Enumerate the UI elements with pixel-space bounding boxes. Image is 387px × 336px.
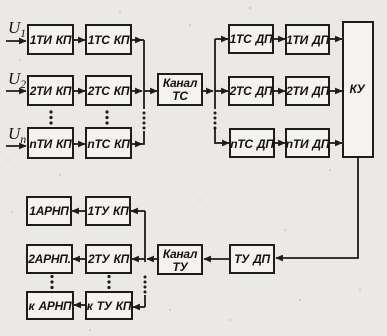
wire 2TI DP to KU: [329, 90, 342, 92]
wire 2TS KP to bus TS-KP junction: [131, 90, 142, 92]
block nTI DP: [286, 129, 330, 157]
block k ARNP: [27, 292, 73, 319]
block k TU KP: [86, 292, 132, 319]
wire 1TI KP to 1TS KP: [73, 39, 85, 41]
wire 1TI DP to KU: [329, 38, 342, 40]
ellipsis dots column TU KP: [107, 275, 110, 289]
block 2TU KP: [86, 245, 131, 273]
wire nTI KP to nTS KP: [73, 143, 85, 145]
svg-text:nТС ДП: nТС ДП: [230, 137, 274, 151]
svg-text:2ТС ДП: 2ТС ДП: [229, 84, 273, 98]
bus TU-KP vertical wire: [144, 211, 146, 262]
bus TU-KP bottom elbow wire: [144, 295, 146, 307]
block nTS DP: [230, 129, 274, 157]
block KU: [343, 22, 373, 157]
block TU DP: [230, 245, 274, 273]
ellipsis dots column ARNP: [50, 275, 53, 289]
block Kanal TS: [158, 74, 202, 105]
svg-text:ТУ ДП: ТУ ДП: [234, 252, 270, 266]
bus TS-KP dotted segment: [143, 112, 146, 130]
svg-text:2АРНП.: 2АРНП.: [27, 252, 70, 266]
svg-text:КУ: КУ: [349, 82, 365, 96]
wire U2 input arrow: [6, 90, 26, 92]
wire bus to nTS DP: [215, 142, 229, 144]
block 2TI KP: [28, 76, 73, 105]
svg-text:nТИ КП: nТИ КП: [29, 137, 72, 151]
svg-text:Канал: Канал: [163, 76, 198, 90]
svg-text:к ТУ КП: к ТУ КП: [87, 299, 132, 313]
wire bus to 2TU KP: [132, 258, 145, 260]
svg-text:Канал: Канал: [163, 247, 198, 261]
wire nTS DP to nTI DP: [274, 142, 285, 144]
svg-text:nТИ ДП: nТИ ДП: [286, 137, 330, 151]
wire bus to 1TU KP: [131, 210, 145, 212]
ellipsis dots column TI KP: [49, 110, 52, 124]
ellipsis dots column TS KP: [105, 110, 108, 124]
svg-text:2ТИ КП: 2ТИ КП: [29, 84, 72, 98]
block 2TS DP: [229, 77, 273, 105]
bus TS-KP vertical wire: [143, 40, 145, 109]
svg-text:1ТС ДП: 1ТС ДП: [230, 32, 273, 46]
svg-text:1ТУ КП: 1ТУ КП: [88, 204, 130, 218]
svg-text:1АРНП: 1АРНП: [29, 204, 69, 218]
svg-text:2ТУ КП: 2ТУ КП: [87, 252, 130, 266]
bus TS-DP bottom elbow wire: [215, 128, 216, 143]
block Kanal TU: [158, 245, 202, 274]
wire nTS KP to bus TS-KP bottom elbow: [131, 131, 144, 144]
svg-text:2ТС КП: 2ТС КП: [87, 84, 130, 98]
block 1TS DP: [229, 25, 273, 53]
block 2TI DP: [285, 77, 329, 105]
block nTI KP: [28, 128, 73, 158]
wire Kanal TU to bus TU-KP junction: [147, 258, 158, 260]
wire 1TS DP to 1TI DP: [273, 38, 285, 40]
wire nTI DP to KU: [329, 142, 342, 144]
wire k TU KP to k ARNP: [74, 304, 86, 306]
svg-text:nТС КП: nТС КП: [87, 137, 130, 151]
wire 2TU KP to 2ARNP: [73, 258, 86, 260]
wire bus to k TU KP: [133, 306, 145, 308]
wire 1TU KP to 1ARNP: [72, 210, 86, 212]
svg-text:2ТИ ДП: 2ТИ ДП: [285, 84, 329, 98]
node U1 input label: [8, 18, 26, 40]
node U2 input label: [8, 69, 26, 91]
wire TU DP to Kanal TU: [204, 258, 230, 260]
bus TS-DP vertical wire: [214, 39, 216, 109]
svg-text:1ТС КП: 1ТС КП: [88, 33, 130, 47]
svg-text:1ТИ ДП: 1ТИ ДП: [286, 33, 329, 47]
block nTS KP: [86, 128, 131, 158]
wire KU down to TU DP: [276, 157, 358, 258]
wire bus TS-KP to Kanal TS: [144, 90, 157, 92]
wire 2TI KP to 2TS KP: [73, 90, 85, 92]
block 2ARNP: [27, 245, 72, 273]
block 1TU KP: [86, 197, 130, 225]
node Un input label: [8, 124, 26, 146]
block 2TS KP: [86, 76, 131, 105]
wire Un input arrow: [6, 145, 26, 147]
block 1ARNP: [27, 197, 71, 225]
svg-text:1ТИ КП: 1ТИ КП: [30, 33, 72, 47]
bus TU-KP dotted segment: [144, 276, 147, 294]
block 1TI KP: [28, 25, 73, 54]
block 1TI DP: [286, 25, 330, 54]
wire 2TS DP to 2TI DP: [273, 90, 285, 92]
wire Kanal TS to bus TS-DP junction: [202, 90, 213, 92]
wire bus to 1TS DP: [215, 38, 228, 40]
wire 1TS KP to bus TS-KP: [131, 39, 144, 41]
svg-text:ТС: ТС: [172, 89, 188, 103]
svg-text:к АРНП: к АРНП: [29, 299, 73, 313]
svg-text:ТУ: ТУ: [173, 260, 189, 274]
wire U1 input arrow: [6, 40, 26, 42]
block 1TS KP: [86, 25, 131, 54]
wire bus to 2TS DP: [215, 90, 228, 92]
bus TS-DP dotted segment: [214, 112, 217, 130]
